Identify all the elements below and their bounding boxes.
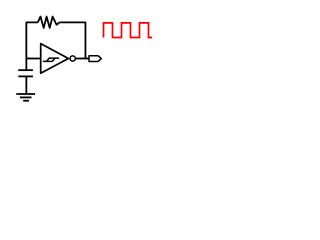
- wire: bubble to output port: [76, 58, 89, 60]
- wire: inverter input from left rail: [26, 58, 40, 60]
- wire: left rail + top-left horizontal: [26, 22, 37, 70]
- square wave icon (red): [104, 23, 153, 38]
- schmitt hysteresis mark: [43, 58, 59, 61]
- wire: top-right horizontal + right rail down to output node: [60, 22, 86, 59]
- inverter U1 (schmitt-trigger triangle): [41, 44, 69, 74]
- capacitor C1: [18, 70, 33, 94]
- ground: [16, 94, 35, 101]
- resistor R1: [38, 17, 60, 28]
- inverter output bubble: [70, 56, 75, 61]
- output port pin: [89, 56, 101, 62]
